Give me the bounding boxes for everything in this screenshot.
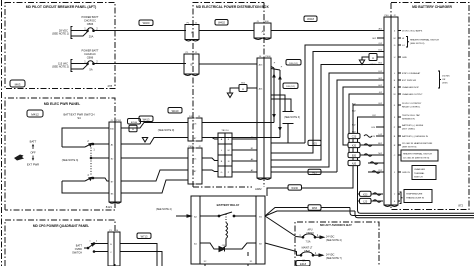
- svg-text:K23: K23: [363, 193, 368, 196]
- svg-text:W413: W413: [143, 117, 150, 121]
- wire W63 down to battery feed: [350, 208, 474, 216]
- wires conn C/D to TB2: [202, 138, 218, 140]
- connector J6/P400 strip: [257, 58, 264, 178]
- wire B10 to distribution box: [121, 123, 188, 129]
- svg-text:TB2-10: TB2-10: [221, 130, 229, 132]
- wire relay B1 to APU breaker: [265, 216, 303, 237]
- svg-text:A: A: [372, 56, 374, 60]
- svg-text:SWITCH: SWITCH: [72, 252, 82, 255]
- ref label M63: [10, 80, 25, 87]
- svg-text:28 VDC OUT/BTRY: 28 VDC OUT/BTRY: [402, 103, 422, 105]
- svg-text:CHARGER INOP: CHARGER INOP: [402, 86, 419, 89]
- wires TB2 to J6 strip: [232, 138, 257, 140]
- svg-text:MD ELECTRICAL POWER DISTRIBUTI: MD ELECTRICAL POWER DISTRIBUTION BOX: [196, 5, 269, 9]
- svg-text:(SEE NOTE 8): (SEE NOTE 8): [402, 147, 417, 149]
- wire 115VAC to J6 strip: [199, 63, 257, 65]
- wire middle pole: [90, 157, 92, 159]
- relay armature link dashed: [225, 214, 227, 223]
- svg-text:MD ELEC PWR PANEL: MD ELEC PWR PANEL: [44, 102, 80, 106]
- svg-text:W130: W130: [291, 187, 298, 190]
- svg-text:MD BATTERY CHARGER: MD BATTERY CHARGER: [412, 5, 452, 9]
- twisted pair P wires: [273, 68, 275, 123]
- svg-text:P400: P400: [265, 56, 271, 58]
- svg-text:POWER BATT: POWER BATT: [82, 49, 99, 53]
- connector P40/J2 battery charger strip: [384, 17, 391, 205]
- wire relay B1 second feed: [265, 211, 355, 216]
- svg-text:CHGR AC: CHGR AC: [84, 52, 96, 56]
- svg-text:BATTERY RELAY: BATTERY RELAY: [217, 203, 240, 207]
- wire B25: [271, 142, 305, 144]
- harness bundle wire to pin L: [271, 73, 384, 167]
- svg-text:A: A: [132, 127, 134, 131]
- svg-text:CHARGER OUTPUT: CHARGER OUTPUT: [402, 93, 423, 96]
- svg-text:W402: W402: [218, 21, 225, 25]
- svg-text:HEATER THERMAL SWITCH: HEATER THERMAL SWITCH: [403, 153, 432, 156]
- wire label C23: [348, 133, 360, 138]
- svg-text:B20: B20: [352, 155, 357, 158]
- enclosure box MD CPG POWER QUADRANT PANEL: [5, 220, 115, 266]
- wire label A20: [348, 160, 360, 165]
- wire B7 to distribution box: [121, 170, 188, 181]
- wire B6 to distribution box: [121, 180, 188, 193]
- relay K battery relay box: [191, 196, 265, 264]
- svg-text:(SEE NOTE 9): (SEE NOTE 9): [158, 129, 175, 132]
- wire second feed down to battery: [355, 211, 474, 218]
- svg-text:CB96: CB96: [87, 55, 94, 59]
- svg-text:A: A: [242, 87, 244, 91]
- wires switch to connector: [94, 243, 108, 245]
- bracket for 115VAC feed: [71, 60, 73, 72]
- wire to connector A: [199, 30, 254, 32]
- svg-text:TEMPERATURE: TEMPERATURE: [406, 192, 423, 195]
- svg-text:28 VDC IN 12 AMPS: 28 VDC IN 12 AMPS: [402, 30, 423, 33]
- svg-text:SWITCH: SWITCH: [414, 177, 423, 179]
- svg-text:A: A: [261, 30, 263, 34]
- wire relay B2 to MAINT breaker: [265, 243, 301, 255]
- svg-text:E318: E318: [300, 262, 307, 266]
- svg-text:J: J: [394, 172, 395, 174]
- relay contact: [200, 215, 219, 217]
- svg-text:THERMAL: THERMAL: [414, 172, 425, 175]
- harness bundle wire to pin R: [343, 87, 384, 145]
- svg-text:P400: P400: [263, 21, 269, 23]
- svg-text:W418: W418: [307, 17, 314, 21]
- switch position legend BATT/OFF/EXT PWR: [27, 140, 39, 167]
- harness bundle wire spare 1: [271, 52, 384, 154]
- wire 115VAC to CB96: [71, 63, 88, 65]
- svg-text:L23: L23: [363, 201, 368, 204]
- wire label P40 SY lower: [283, 83, 298, 89]
- sheet border remnant left: [1, 0, 3, 266]
- bracket for 28VDC feed: [71, 27, 73, 39]
- pointing hand icon: [14, 155, 24, 161]
- wire lower feed to CB66: [71, 31, 88, 36]
- svg-text:CHGR DC: CHGR DC: [84, 18, 96, 22]
- svg-text:A20: A20: [352, 163, 357, 166]
- wire L23: [358, 200, 384, 202]
- svg-text:K20: K20: [352, 145, 357, 148]
- wire A1 to distribution box: [121, 138, 188, 145]
- relay coil: [226, 223, 228, 239]
- svg-text:BATT/EXT PWR SWITCH: BATT/EXT PWR SWITCH: [64, 113, 95, 117]
- wire relay B1 to W63: [265, 208, 350, 217]
- svg-text:MD PILOT CIRCUIT BREAKER PANEL: MD PILOT CIRCUIT BREAKER PANEL (AFT): [26, 5, 97, 9]
- svg-text:20A: 20A: [89, 35, 94, 39]
- wire label K20: [348, 142, 360, 147]
- wire label W418: [304, 16, 317, 22]
- wire W400 28VDC feed to distribution box: [94, 30, 187, 32]
- wire label W413: [139, 116, 153, 122]
- wire A25: [271, 171, 337, 173]
- svg-text:BTRY OVERHEAT: BTRY OVERHEAT: [402, 72, 421, 75]
- wire label W400: [139, 20, 153, 26]
- svg-text:M412: M412: [31, 112, 39, 116]
- svg-text:EXT PWR: EXT PWR: [27, 163, 39, 167]
- wire label W410: [168, 108, 182, 114]
- wire B2 to distribution box: [121, 157, 188, 159]
- svg-text:28 VDC: 28 VDC: [59, 28, 68, 32]
- svg-text:M63: M63: [15, 82, 21, 86]
- svg-text:GND: GND: [402, 57, 407, 59]
- wire label W402: [215, 20, 228, 26]
- enclosure box MD ELEC PWR PANEL: [5, 98, 115, 210]
- svg-text:TENTH CELL TAP: TENTH CELL TAP: [402, 114, 420, 117]
- connector P436/J2: [188, 148, 195, 184]
- relay left terminal strip: [191, 196, 200, 264]
- wire stub pin B battery sense: [376, 135, 384, 137]
- svg-text:M: M: [394, 38, 396, 40]
- harness bundle wire spare 2: [271, 65, 384, 161]
- wire conn C pin B7 to pair: [202, 137, 280, 139]
- svg-text:LO: LO: [402, 45, 405, 47]
- svg-text:BATTERY (-) SENSING IN: BATTERY (-) SENSING IN: [402, 135, 428, 138]
- svg-text:P40 (SY): P40 (SY): [289, 63, 298, 65]
- contact blade upper: [85, 144, 92, 147]
- wire label W63: [308, 205, 321, 210]
- svg-text:P40 (SY): P40 (SY): [286, 86, 295, 88]
- svg-text:POWER BATT: POWER BATT: [82, 15, 99, 19]
- wire label W130: [288, 185, 302, 190]
- coil return wire: [221, 239, 226, 250]
- enclosure box MD AFT AVIONICS BAY: [295, 222, 379, 266]
- svg-text:HEATER THERMAL SWITCH: HEATER THERMAL SWITCH: [410, 39, 439, 42]
- svg-text:478: 478: [107, 84, 112, 88]
- enclosure box MD PILOT CIRCUIT BREAKER PANEL (AFT): [5, 3, 115, 89]
- svg-text:(SEE NOTE 2): (SEE NOTE 2): [52, 65, 69, 69]
- relay right terminal strip: [256, 196, 265, 264]
- wire stub pin M: [377, 37, 384, 39]
- svg-text:MD CPG POWER QUADRANT PANEL: MD CPG POWER QUADRANT PANEL: [33, 224, 89, 228]
- svg-text:S4: S4: [77, 116, 81, 120]
- svg-text:RELAY CONTROL: RELAY CONTROL: [402, 106, 421, 109]
- svg-text:G: G: [221, 172, 223, 174]
- stub to pin A20: [368, 162, 384, 164]
- svg-text:C23: C23: [352, 136, 357, 139]
- brace 150 ms on loss: [438, 71, 441, 88]
- svg-text:EXT PWR SW: EXT PWR SW: [402, 80, 417, 82]
- mechanical link dashed: [90, 148, 92, 177]
- svg-text:A25: A25: [312, 171, 317, 174]
- connector D8/B7: [188, 118, 195, 141]
- svg-text:A482: A482: [255, 187, 262, 191]
- shield termination upper (see note 3): [271, 95, 285, 111]
- svg-text:CHARGER: CHARGER: [414, 168, 425, 171]
- enclosure box MD ELECTRICAL POWER DISTRIBUTION BOX: [193, 3, 264, 188]
- ground GRD40: [377, 56, 384, 58]
- svg-text:MD AFT AVIONICS BAY: MD AFT AVIONICS BAY: [320, 223, 352, 227]
- svg-text:B: B: [190, 63, 192, 67]
- relay bottom pin X1 wire: [247, 252, 249, 256]
- connector J1/P112 elec pwr panel: [109, 122, 115, 202]
- svg-text:(SEE NOTE 7): (SEE NOTE 7): [326, 257, 342, 260]
- ref label M412: [27, 110, 43, 117]
- svg-text:A: A: [191, 31, 193, 35]
- svg-text:(SEE NOTE 3): (SEE NOTE 3): [284, 116, 300, 119]
- harness bundle wire to pin A: [337, 80, 384, 172]
- svg-text:P112: P112: [116, 120, 122, 122]
- harness bundle wire to pin D: [305, 45, 384, 143]
- svg-text:(SEE NOTE 8): (SEE NOTE 8): [410, 43, 425, 45]
- wire 115VAC feed to distribution box: [94, 63, 187, 65]
- svg-text:TRANSDUCER IN: TRANSDUCER IN: [406, 196, 424, 199]
- svg-text:W63: W63: [312, 207, 318, 210]
- switch S4 contact wiring: [62, 128, 109, 147]
- connector P1/J4 cpg panel: [108, 232, 114, 266]
- wire lower loop: [62, 181, 109, 193]
- svg-text:7.5A: 7.5A: [306, 241, 311, 244]
- circuit breaker CB96 POWER BATT CHGR AC: [82, 49, 99, 72]
- contact blade lower: [62, 180, 85, 182]
- svg-text:LESS: LESS: [442, 83, 448, 85]
- svg-text:OR: OR: [442, 79, 446, 81]
- wire 28VDC to CB66: [71, 30, 88, 32]
- svg-text:W400: W400: [143, 21, 150, 25]
- pin function labels: [398, 30, 401, 32]
- wire stub pin P battery sense: [376, 126, 384, 128]
- wire lower feed to CB96: [71, 64, 88, 69]
- svg-text:115 VAC IN (SEE NOTE 8): 115 VAC IN (SEE NOTE 8): [403, 157, 429, 160]
- wire stub to pin J: [368, 171, 384, 173]
- wire K23: [358, 193, 384, 195]
- svg-text:SENSING IN: SENSING IN: [402, 119, 415, 121]
- svg-text:W713: W713: [141, 234, 148, 238]
- svg-text:872: 872: [458, 204, 463, 208]
- svg-text:115 VAC IN HEATER RETURN: 115 VAC IN HEATER RETURN: [402, 142, 433, 145]
- connector A on power distribution box: [254, 23, 271, 38]
- svg-text:(SEE NOTE 4): (SEE NOTE 4): [156, 208, 172, 211]
- svg-text:BATT: BATT: [30, 140, 37, 144]
- svg-text:CB66: CB66: [87, 22, 94, 26]
- svg-text:115 VAC: 115 VAC: [58, 61, 68, 65]
- svg-text:W410: W410: [172, 109, 179, 113]
- circuit breaker CB66 POWER BATT CHGR DC: [82, 15, 99, 39]
- svg-text:M: M: [228, 150, 230, 152]
- svg-text:E7040: E7040: [131, 122, 138, 124]
- right edge of distribution box: [263, 3, 265, 188]
- connector B 115VAC entry: [184, 54, 199, 74]
- wire label B20: [348, 152, 360, 157]
- harness bundle wire to pin F temp bus: [358, 117, 474, 213]
- wire label P40 SY upper: [286, 60, 301, 66]
- connector P1/J1 28VDC entry: [185, 25, 199, 40]
- shield termination lower: [283, 123, 294, 125]
- svg-text:150 MS: 150 MS: [442, 76, 450, 78]
- wire 28VDC to charger pin Z: [271, 30, 384, 32]
- wire conn C pin D8 to pair: [202, 122, 274, 124]
- ref label E318: [296, 261, 310, 266]
- svg-text:(NOT USED): (NOT USED): [402, 129, 415, 131]
- svg-text:(SEE NOTE 3): (SEE NOTE 3): [62, 159, 79, 162]
- svg-text:P436: P436: [188, 146, 194, 148]
- enclosure box MD BATTERY CHARGER: [391, 3, 469, 210]
- svg-text:8121: 8121: [106, 205, 113, 209]
- svg-text:BATTERY (+) SENSE: BATTERY (+) SENSE: [402, 124, 424, 127]
- wire label W713: [137, 233, 151, 239]
- svg-text:GND IN: GND IN: [402, 172, 410, 174]
- harness bundle wire to pin W: [349, 94, 384, 155]
- ground E7040: [128, 119, 141, 125]
- svg-text:(SEE NOTE 4): (SEE NOTE 4): [326, 239, 342, 242]
- wires cpg to sheet edge: [120, 244, 157, 266]
- svg-text:(SEE NOTE 1): (SEE NOTE 1): [52, 32, 69, 36]
- harness bundle wire to pin K relay control: [267, 105, 384, 196]
- twist symbols: [364, 135, 372, 138]
- svg-text:OFF: OFF: [30, 151, 36, 155]
- svg-text:5A: 5A: [89, 68, 92, 72]
